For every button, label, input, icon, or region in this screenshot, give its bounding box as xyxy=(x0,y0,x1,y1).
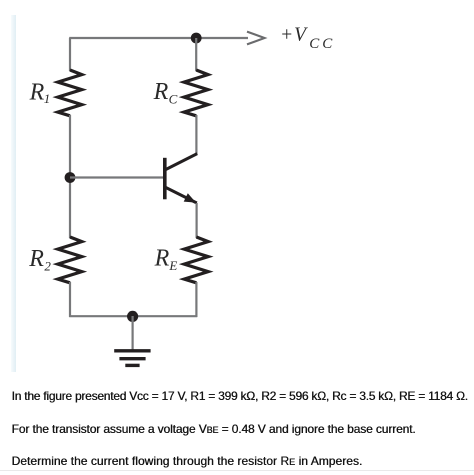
svg-text:2: 2 xyxy=(44,258,51,273)
transistor Q1 collector stroke xyxy=(165,154,197,170)
bottom faint divider line xyxy=(0,470,474,471)
wire Vcc arrow lead xyxy=(196,37,248,39)
problem text line 1 xyxy=(12,389,468,403)
node junction dot ground xyxy=(127,311,138,322)
svg-text:E: E xyxy=(168,258,177,273)
resistor RE xyxy=(184,237,208,283)
resistor RC xyxy=(184,70,208,116)
wire emitter vertical xyxy=(196,203,198,238)
wire right rail upper xyxy=(195,38,197,71)
svg-text:+V: +V xyxy=(280,25,308,46)
wire base xyxy=(70,176,164,178)
svg-text:R: R xyxy=(154,246,170,272)
transistor Q1 emitter stroke xyxy=(165,187,197,203)
svg-text:1: 1 xyxy=(44,91,51,106)
ground bar 3 xyxy=(125,364,139,367)
wire left rail upper xyxy=(69,38,71,71)
svg-text:CC: CC xyxy=(309,36,335,52)
wire collector vertical xyxy=(195,115,197,155)
wire bottom rail xyxy=(69,315,197,317)
left faint blue band xyxy=(11,15,16,372)
node junction dot top (Vcc rail) xyxy=(191,33,202,44)
problem text line 3 xyxy=(12,454,363,469)
wire left rail middle xyxy=(69,115,71,238)
resistor R1 xyxy=(58,70,82,116)
resistor R2 xyxy=(58,237,82,283)
wire right rail lower xyxy=(195,282,197,317)
ground bar 2 xyxy=(119,357,145,360)
Vcc arrowhead xyxy=(247,32,265,45)
transistor Q1 emitter arrowhead xyxy=(184,193,196,202)
transistor Q1 base bar xyxy=(163,158,167,200)
ground bar 1 xyxy=(114,349,150,352)
wire ground stem xyxy=(132,316,134,350)
problem text line 2 xyxy=(12,422,416,437)
wire left rail lower xyxy=(69,282,71,317)
svg-text:R: R xyxy=(153,79,169,105)
svg-text:R: R xyxy=(29,79,45,105)
svg-text:R: R xyxy=(28,246,44,272)
node junction dot base xyxy=(65,172,76,183)
svg-text:C: C xyxy=(169,92,178,107)
wire top rail xyxy=(69,37,196,39)
